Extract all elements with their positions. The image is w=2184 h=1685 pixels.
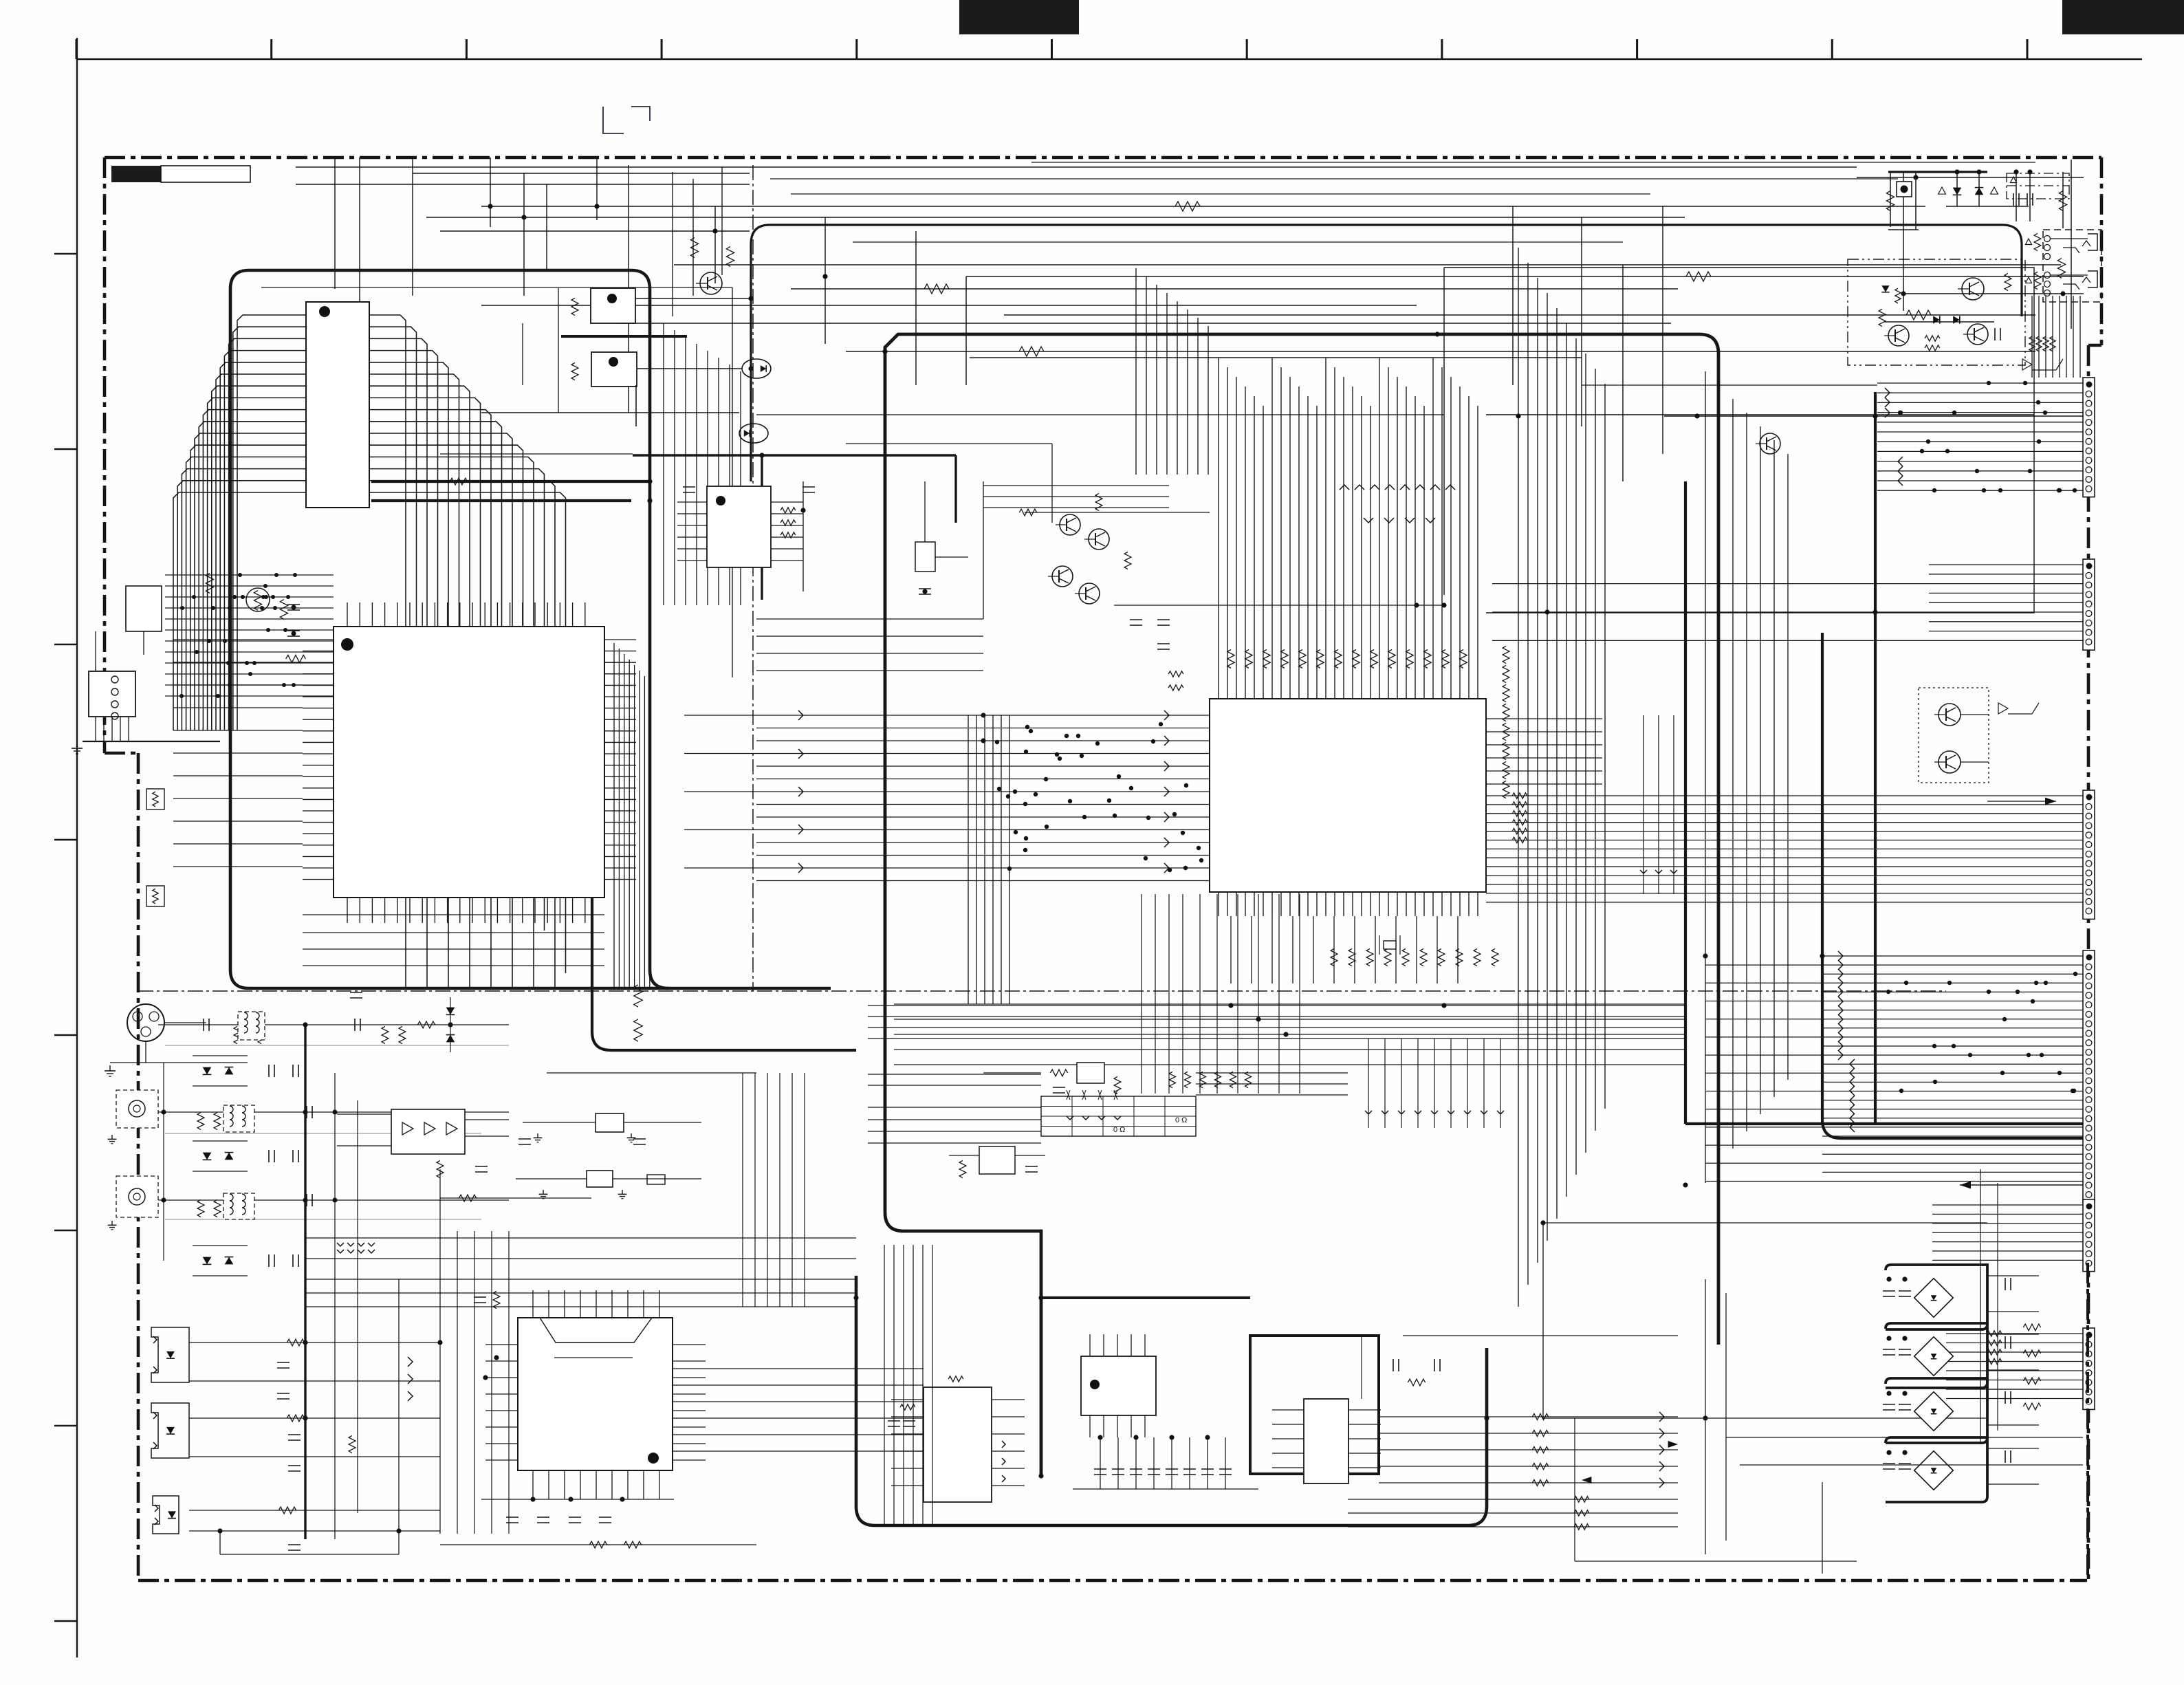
svg-text:0 Ω: 0 Ω [1113, 1126, 1125, 1134]
svg-text:0 Ω: 0 Ω [1175, 1116, 1187, 1124]
